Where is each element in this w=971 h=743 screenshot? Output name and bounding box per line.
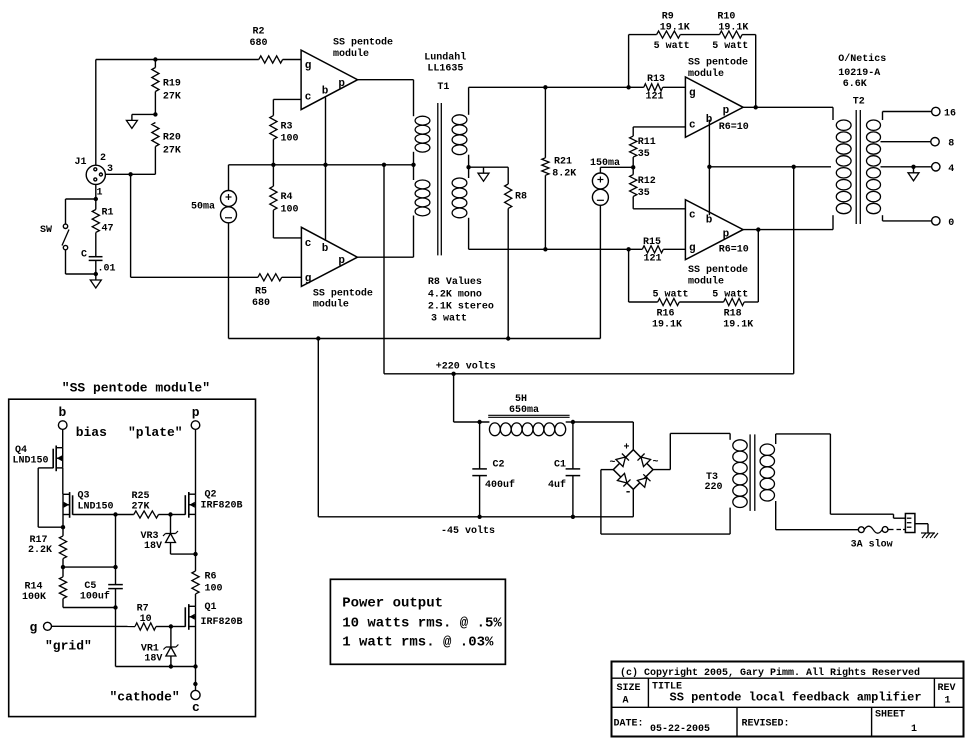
svg-text:Q1: Q1 [205, 602, 217, 613]
svg-text:SW: SW [40, 225, 52, 236]
svg-text:b: b [322, 243, 329, 255]
svg-text:5 watt: 5 watt [654, 41, 690, 52]
svg-text:R16: R16 [657, 309, 675, 320]
svg-text:SS pentode: SS pentode [688, 57, 748, 69]
wire Q4 source to Q3 [62, 468, 64, 494]
wire Q3 source down [62, 494, 64, 536]
svg-text:g: g [689, 243, 696, 255]
svg-text:+220 volts: +220 volts [436, 361, 496, 373]
wire U1 b pin [325, 98, 327, 165]
wire J1 pin3 to R20 [105, 173, 155, 175]
svg-text:-45 volts: -45 volts [441, 525, 495, 537]
svg-text:C2: C2 [493, 460, 505, 471]
svg-text:18V: 18V [144, 654, 162, 665]
svg-text:19.1K: 19.1K [723, 319, 753, 330]
svg-text:"cathode": "cathode" [110, 690, 180, 705]
module detail box [9, 399, 256, 716]
svg-text:10219-A: 10219-A [838, 68, 880, 79]
wire Q3 gate to R25 line [73, 514, 116, 516]
wire bridge ac right [653, 469, 670, 471]
transistor Q2 IRF820B [188, 492, 190, 518]
transformer T3 core [749, 434, 751, 511]
svg-text:4uf: 4uf [548, 479, 566, 491]
resistor R25 [113, 512, 117, 516]
svg-text:Power output: Power output [342, 596, 443, 612]
svg-text:g: g [689, 88, 696, 100]
svg-text:g: g [30, 620, 38, 635]
op-amp U3 SS pentode module upper right [685, 77, 743, 137]
wire C5 node to cathode rail [115, 608, 117, 667]
wire choke feed [453, 374, 455, 422]
svg-text:2.1K stereo: 2.1K stereo [428, 302, 494, 313]
svg-text:27K: 27K [132, 502, 150, 513]
svg-text:121: 121 [646, 92, 664, 103]
capacitor C1 [572, 422, 574, 469]
terminal 8 [931, 138, 939, 146]
wire U2 output to T1 [357, 256, 413, 258]
resistor R11 [633, 126, 685, 128]
svg-text:5 watt: 5 watt [712, 290, 748, 301]
wire input top rail [96, 59, 259, 61]
capacitor C5 [115, 515, 117, 585]
svg-text:R5: R5 [255, 287, 267, 298]
transformer T1 secondary winding [468, 87, 470, 115]
svg-text:IRF820B: IRF820B [201, 617, 243, 628]
note power output box [330, 579, 505, 664]
svg-text:R20: R20 [163, 133, 181, 144]
svg-text:module: module [688, 68, 724, 80]
svg-text:100: 100 [205, 584, 223, 595]
wire U1 c input [273, 98, 301, 100]
svg-text:+: + [624, 443, 630, 454]
current source 150ma [600, 166, 633, 168]
svg-text:p: p [192, 405, 200, 420]
svg-text:8: 8 [948, 139, 954, 150]
wire plug to chassis ground [915, 523, 928, 525]
svg-text:~: ~ [653, 457, 659, 468]
svg-text:c: c [305, 238, 312, 250]
wire b pins right modules [708, 120, 710, 216]
svg-text:R8 Values: R8 Values [428, 276, 482, 288]
svg-text:35: 35 [638, 188, 650, 199]
svg-text:R25: R25 [132, 491, 150, 502]
svg-text:module: module [313, 299, 349, 311]
svg-text:R11: R11 [638, 137, 656, 148]
svg-text:R4: R4 [281, 192, 293, 203]
svg-text:SIZE: SIZE [617, 683, 641, 694]
svg-text:150ma: 150ma [590, 158, 620, 169]
wire p to Q2 drain [195, 429, 197, 494]
capacitor C .01 [89, 256, 103, 258]
svg-text:121: 121 [644, 254, 662, 265]
wire R4 to U2 c input [273, 237, 301, 239]
svg-text:T2: T2 [853, 97, 865, 108]
svg-text:Q2: Q2 [205, 490, 217, 501]
svg-text:R6=10: R6=10 [719, 122, 749, 133]
svg-text:LL1635: LL1635 [427, 64, 463, 75]
svg-text:T1: T1 [437, 82, 449, 93]
wire T2 tap 8 [881, 141, 931, 143]
bridge rectifier [613, 450, 653, 490]
svg-text:19.1K: 19.1K [718, 22, 748, 33]
resistor R15 [642, 246, 663, 253]
wire Q2 source down [195, 514, 197, 554]
svg-text:R6=10: R6=10 [719, 245, 749, 256]
svg-text:16: 16 [944, 109, 956, 120]
transformer T2 primary winding [832, 107, 834, 120]
svg-text:p: p [338, 78, 345, 90]
svg-text:0: 0 [948, 218, 954, 229]
svg-text:SHEET: SHEET [875, 710, 905, 721]
svg-text:R6: R6 [205, 572, 217, 583]
wire T2 tap 16 [882, 112, 884, 121]
svg-text:1: 1 [97, 188, 103, 199]
svg-text:5H: 5H [515, 394, 527, 405]
resistor R4 [270, 186, 277, 210]
title block row lines [612, 677, 964, 679]
wire U4 output [756, 227, 760, 231]
resistor R8 [507, 167, 509, 184]
wire J1 pin2 vertical [95, 60, 97, 166]
svg-text:DATE:: DATE: [614, 719, 644, 730]
transformer T1 core [437, 103, 439, 255]
wire R14 bottom [63, 607, 116, 609]
wire T2 tap 4 [881, 166, 932, 168]
svg-text:SS pentode: SS pentode [313, 288, 373, 300]
wire J1 pin1 down [95, 184, 97, 209]
resistor R14 [62, 567, 64, 577]
op-amp U2 SS pentode module lower [301, 227, 357, 286]
svg-text:R14: R14 [25, 582, 43, 593]
resistor R9 [628, 35, 630, 88]
svg-text:C: C [81, 250, 87, 261]
switch SW [66, 198, 96, 200]
svg-text:IRF820B: IRF820B [201, 501, 243, 512]
resistor R20 [152, 123, 159, 147]
transformer T2 core [855, 110, 857, 224]
resistor R18 [724, 298, 745, 305]
terminal g [44, 622, 52, 630]
title block border [612, 662, 964, 737]
svg-text:SS pentode: SS pentode [333, 37, 393, 49]
svg-text:c: c [689, 119, 696, 131]
terminal c [191, 690, 200, 699]
svg-text:R19: R19 [163, 79, 181, 90]
wire T1 secondary top [469, 86, 546, 88]
resistor R13 [644, 84, 663, 91]
wire bias rail to +220 [383, 165, 385, 374]
svg-text:3: 3 [107, 164, 113, 175]
svg-text:b: b [59, 405, 67, 420]
wire C1 to bridge [573, 421, 633, 423]
svg-text:C1: C1 [554, 460, 566, 471]
svg-text:SS pentode local feedback ampl: SS pentode local feedback amplifier [670, 691, 922, 705]
svg-text:2.2K: 2.2K [28, 545, 52, 556]
op-amp U4 SS pentode module lower right [685, 200, 743, 260]
terminal 16 [932, 107, 940, 115]
terminal 0 [932, 217, 940, 225]
svg-text:1 watt rms. @ .03%: 1 watt rms. @ .03% [342, 634, 494, 650]
wire +220 feed vertical right [793, 167, 795, 374]
svg-text:19.1K: 19.1K [660, 22, 690, 33]
current source 50ma [228, 165, 230, 191]
transistor Q3 LND150 [69, 492, 71, 518]
chassis ground [921, 532, 935, 534]
wire R12 to U4 c [633, 208, 685, 210]
resistor R1 [92, 210, 99, 233]
svg-text:A: A [623, 696, 629, 707]
wire mains hot [829, 434, 831, 514]
resistor R17 [59, 536, 66, 559]
svg-text:R18: R18 [724, 309, 742, 320]
wire U3 output [754, 105, 758, 109]
svg-text:18V: 18V [144, 541, 162, 552]
svg-text:p: p [723, 105, 730, 117]
svg-text:p: p [338, 255, 345, 267]
svg-text:4: 4 [948, 164, 954, 175]
svg-text:R8: R8 [515, 191, 527, 202]
wire T1 secondary bottom [469, 248, 546, 250]
terminal p [191, 421, 200, 430]
connector J1 [86, 165, 105, 184]
svg-text:"SS pentode module": "SS pentode module" [62, 381, 210, 396]
transistor Q4 LND150 [55, 446, 57, 472]
wire Q4 gate [38, 467, 53, 469]
transformer T2 secondary winding [867, 120, 881, 130]
svg-text:50ma: 50ma [191, 202, 215, 213]
svg-text:6.6K: 6.6K [843, 79, 867, 90]
svg-text:b: b [322, 86, 329, 98]
svg-text:3A slow: 3A slow [851, 539, 893, 551]
zener VR3 18V [170, 515, 172, 534]
wire U2 b pin [325, 165, 327, 241]
svg-text:35: 35 [638, 149, 650, 160]
svg-text:~: ~ [610, 458, 616, 469]
svg-text:19.1K: 19.1K [652, 319, 682, 330]
svg-text:b: b [706, 215, 713, 227]
wire +220 volts rail [384, 373, 794, 375]
plug P1 [905, 514, 915, 533]
svg-text:J1: J1 [75, 157, 87, 168]
fuse 3A slow [858, 527, 864, 533]
transformer T1 primary winding [415, 116, 430, 125]
ground [483, 167, 485, 173]
svg-text:LND150: LND150 [78, 502, 114, 513]
svg-text:O/Netics: O/Netics [838, 53, 886, 65]
svg-text:R13: R13 [647, 74, 665, 85]
transformer T3 secondary winding [760, 444, 774, 455]
svg-text:10: 10 [140, 614, 152, 625]
svg-text:R3: R3 [281, 121, 293, 132]
ground [131, 114, 133, 120]
terminal b [58, 421, 67, 430]
svg-text:100K: 100K [22, 592, 46, 603]
svg-text:c: c [689, 210, 696, 222]
svg-text:1: 1 [911, 724, 917, 735]
wire bridge minus to -45 rail [632, 489, 634, 517]
svg-text:220: 220 [705, 482, 723, 493]
svg-text:2: 2 [100, 153, 106, 164]
resistor R16 [628, 249, 630, 302]
op-amp U1 SS pentode module upper [301, 50, 358, 110]
svg-text:8.2K: 8.2K [552, 169, 576, 180]
svg-text:LND150: LND150 [13, 456, 49, 467]
wire -45 vertical [317, 339, 319, 517]
svg-text:R10: R10 [717, 12, 735, 23]
resistor R2 [259, 56, 283, 63]
svg-text:"plate": "plate" [128, 425, 183, 440]
wire b down [62, 429, 64, 447]
resistor R21 [542, 158, 549, 176]
svg-text:10 watts rms. @ .5%: 10 watts rms. @ .5% [342, 616, 502, 632]
wire -45 rail top [229, 338, 601, 340]
svg-text:g: g [305, 60, 312, 72]
svg-text:module: module [688, 276, 724, 288]
wire J1 node down-left rail [130, 174, 132, 277]
resistor R3 [270, 116, 277, 140]
zener VR1 18V [170, 627, 172, 648]
resistor R12 [632, 167, 634, 174]
svg-text:Q3: Q3 [78, 491, 90, 502]
svg-text:100uf: 100uf [80, 591, 110, 603]
wire R19-R20 ground stub [132, 113, 156, 115]
resistor R19 [154, 60, 156, 68]
inductor 5H choke [488, 414, 569, 416]
svg-text:R12: R12 [638, 176, 656, 187]
svg-text:C5: C5 [84, 581, 96, 592]
svg-text:(c) Copyright 2005, Gary Pimm.: (c) Copyright 2005, Gary Pimm. All Right… [620, 667, 920, 679]
wire bridge ac left [601, 469, 613, 471]
svg-text:"grid": "grid" [45, 639, 92, 654]
svg-text:REVISED:: REVISED: [742, 719, 790, 730]
wire b rail to T2 primary tap [709, 166, 831, 168]
svg-text:1: 1 [945, 696, 951, 707]
svg-text:3 watt: 3 watt [431, 314, 467, 325]
transistor Q1 IRF820B [188, 604, 190, 630]
svg-text:47: 47 [102, 224, 114, 235]
capacitor C2 [479, 422, 481, 469]
svg-text:05-22-2005: 05-22-2005 [650, 724, 710, 735]
svg-text:REV: REV [938, 683, 956, 694]
svg-text:400uf: 400uf [485, 479, 515, 491]
svg-text:-: - [625, 485, 632, 499]
resistor R7 [135, 623, 156, 630]
svg-text:100: 100 [281, 204, 299, 215]
wire U1 output to T1 [358, 79, 414, 81]
wire bias rail y165 [229, 164, 414, 166]
svg-text:R21: R21 [554, 157, 572, 168]
svg-text:Lundahl: Lundahl [424, 51, 466, 63]
resistor R5 [258, 274, 282, 281]
wire g to R7 [52, 625, 136, 627]
transformer T3 primary winding [729, 433, 731, 439]
wire Q1 source to c [195, 626, 197, 666]
svg-text:bias: bias [76, 425, 107, 440]
svg-text:g: g [305, 273, 312, 285]
resistor R6 [195, 554, 197, 571]
svg-text:.01: .01 [98, 264, 116, 275]
terminal 4 [932, 163, 940, 171]
svg-text:27K: 27K [163, 92, 181, 103]
svg-text:R9: R9 [662, 12, 674, 23]
svg-text:5 watt: 5 watt [653, 290, 689, 301]
ground [913, 167, 915, 173]
wire T2 tap 0 [882, 215, 884, 221]
svg-text:4.2K mono: 4.2K mono [428, 289, 482, 300]
svg-text:c: c [192, 700, 200, 715]
svg-text:p: p [723, 229, 730, 241]
svg-text:680: 680 [250, 38, 268, 49]
svg-text:R2: R2 [253, 27, 265, 38]
svg-text:100: 100 [281, 134, 299, 145]
cathode rail [116, 666, 196, 668]
svg-text:R1: R1 [102, 208, 114, 219]
svg-text:module: module [333, 48, 369, 60]
svg-text:5 watt: 5 watt [712, 41, 748, 52]
svg-text:650ma: 650ma [509, 405, 539, 416]
svg-text:680: 680 [252, 298, 270, 309]
ground [95, 274, 97, 280]
wire T1 center tap right [466, 165, 470, 169]
svg-text:SS pentode: SS pentode [688, 264, 748, 276]
resistor R10 [720, 31, 743, 38]
svg-text:R15: R15 [643, 237, 661, 248]
wire R17 bottom to C5 [63, 566, 116, 568]
svg-text:c: c [305, 92, 312, 104]
svg-text:Q4: Q4 [15, 445, 27, 456]
svg-text:27K: 27K [163, 146, 181, 157]
wire -45 volts rail [318, 516, 633, 518]
